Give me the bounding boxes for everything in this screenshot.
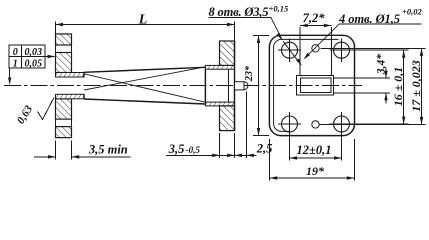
svg-text:L: L [138, 12, 148, 27]
svg-text:3,5: 3,5 [168, 142, 185, 156]
left flange section hatched blocks [56, 34, 72, 138]
svg-text:17 ± 0,023: 17 ± 0,023 [409, 60, 423, 112]
tolerance frame [9, 45, 45, 70]
flange plate outer outline [269, 35, 354, 135]
pin hole top [312, 45, 319, 52]
dimension 16±0,1 [391, 50, 405, 124]
svg-text:0,05: 0,05 [24, 59, 42, 70]
dimension 7,2* [300, 11, 331, 76]
svg-text:0,03: 0,03 [24, 47, 42, 58]
flange plate inner lip outline [274, 39, 339, 131]
roughness mark 0,63 [15, 98, 54, 127]
svg-text:-0,5: -0,5 [186, 145, 201, 155]
dimension 23* [244, 35, 269, 135]
bolt hole top-left [278, 39, 301, 63]
frame leader to flange face [45, 55, 55, 58]
svg-text:+0,15: +0,15 [269, 4, 289, 14]
svg-text:19*: 19* [306, 164, 325, 178]
frame leader to axis [8, 68, 11, 85]
svg-text:4 отв. Ø1,5: 4 отв. Ø1,5 [338, 12, 400, 26]
bolt hole bottom-right [334, 112, 350, 137]
horn taper outer lines [84, 67, 205, 104]
label 8 otv. with leader [209, 4, 289, 41]
svg-text:16 ± 0,1: 16 ± 0,1 [391, 67, 405, 107]
svg-text:+0,02: +0,02 [402, 7, 422, 17]
svg-text:12±0,1: 12±0,1 [297, 143, 332, 157]
dimension L [55, 12, 234, 40]
svg-text:3,4*: 3,4* [376, 54, 388, 75]
bolt hole bottom-left [278, 116, 301, 132]
dimension 3,5 min [34, 141, 131, 160]
dimension 3,4* [334, 54, 390, 104]
label 4 otv. with leader [304, 7, 423, 60]
dimension 3,5-0,5 and 2,5 [166, 92, 272, 159]
horn inner taper diagonals [84, 67, 205, 102]
hole row extension lines [319, 48, 426, 124]
right waveguide stub walls [205, 65, 234, 106]
waveguide aperture [297, 76, 334, 96]
svg-text:0: 0 [13, 47, 18, 58]
leader through hole to aperture corner [283, 41, 302, 66]
svg-text:3,5 min: 3,5 min [88, 143, 128, 157]
horn tube wall bands through flange [56, 73, 85, 99]
svg-text:8 отв. Ø3,5: 8 отв. Ø3,5 [209, 5, 269, 19]
dimension 19* [270, 139, 355, 181]
centerline axis [4, 85, 362, 87]
pin hole bottom [312, 121, 319, 128]
dimension 17±0,023 [409, 48, 423, 124]
coax pin [235, 82, 248, 90]
svg-text:23*: 23* [244, 65, 255, 82]
svg-text:7,2*: 7,2* [303, 11, 326, 25]
bolt hole top-right [334, 39, 350, 63]
dimension 12±0,1 [290, 112, 342, 161]
right flange blocks [220, 41, 235, 131]
svg-text:1: 1 [13, 59, 18, 70]
